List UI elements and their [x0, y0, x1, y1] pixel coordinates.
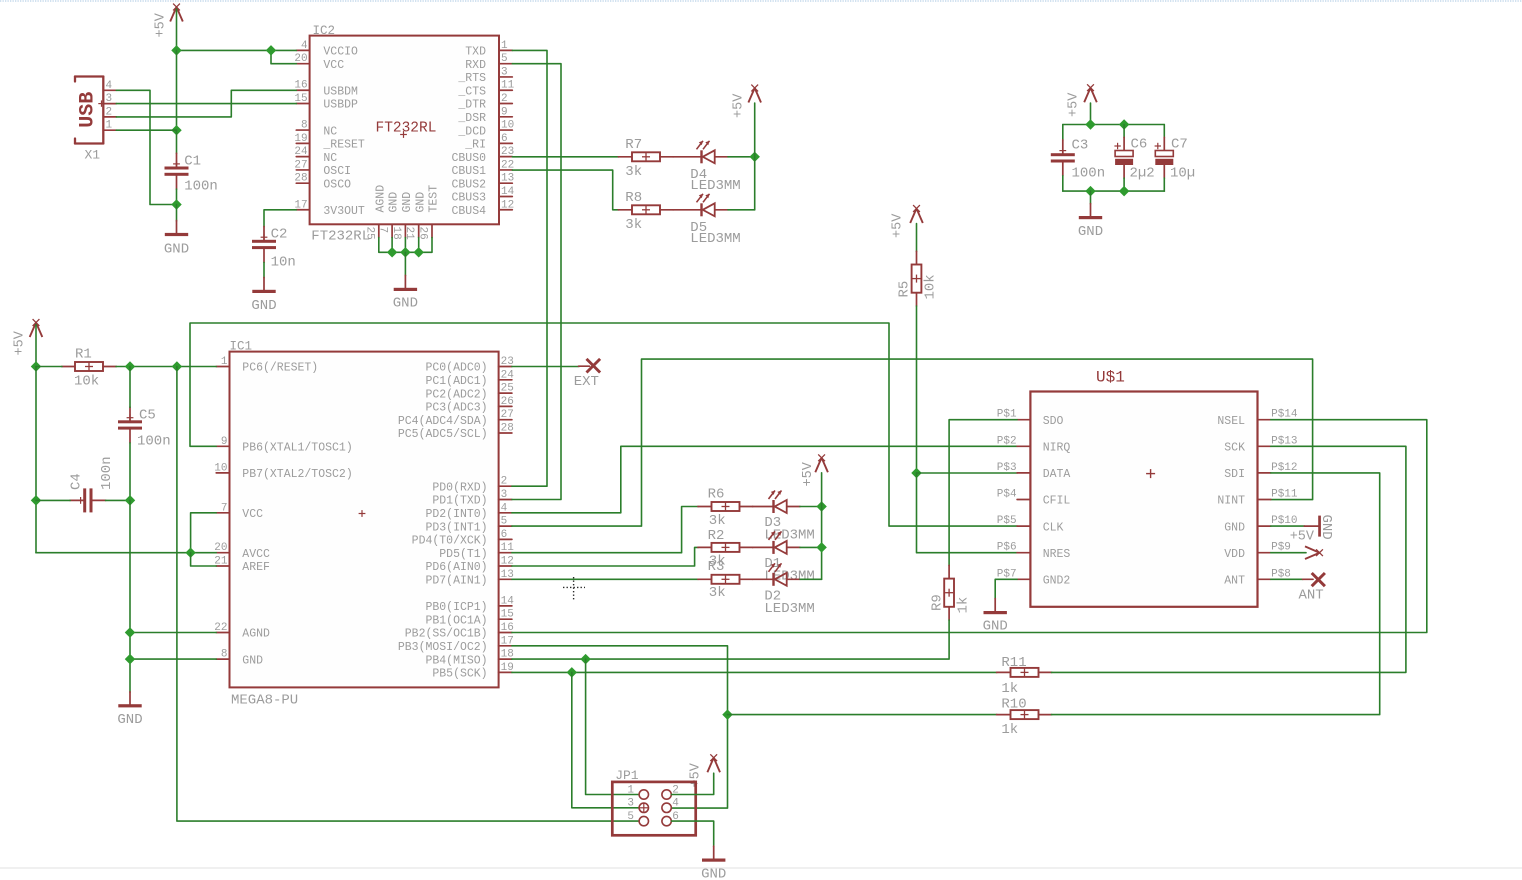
GND label left column	[117, 712, 142, 728]
IC1 pin 18 PB4(MISO) (right)	[425, 649, 513, 668]
C1 name label	[184, 154, 201, 170]
ground symbol under C2	[252, 277, 275, 293]
wire C1 bottom to ground node	[176, 189, 178, 204]
ground symbol under P$7	[984, 599, 1007, 615]
IC2 pin 19 _RESET (left)	[294, 133, 365, 152]
D4 value label LED3MM	[690, 178, 740, 194]
svg-text:OSCO: OSCO	[323, 178, 351, 191]
JP1 pin 5 (left) and pin 6 (right) row 3	[627, 811, 679, 826]
wire USB pin3 D+ to IC2 USBDP pin 15	[116, 103, 296, 105]
D3 name label	[764, 515, 781, 531]
R9 name label (rotated)	[930, 594, 946, 611]
svg-text:9: 9	[221, 436, 228, 448]
IC2 pin 9 _DSR (right)	[457, 106, 512, 125]
svg-text:R11: R11	[1001, 655, 1026, 671]
wire U$1 P$1 SDO to R9	[949, 420, 1017, 566]
C7 name label	[1171, 137, 1188, 153]
svg-text:100n: 100n	[99, 456, 115, 490]
svg-text:GND: GND	[393, 296, 418, 312]
capacitor C7 10u (polarized)	[1155, 137, 1174, 178]
+5V supply symbol A3 (R1 left)	[13, 319, 43, 355]
svg-text:P$11: P$11	[1271, 489, 1298, 501]
faint bottom artifact line	[0, 867, 1522, 869]
svg-text:IC2: IC2	[313, 24, 336, 38]
wire R5 net down to U$1 NRES P$6	[917, 473, 1018, 553]
svg-text:GND: GND	[1078, 224, 1103, 240]
svg-text:4: 4	[501, 502, 508, 514]
LED D4	[697, 141, 729, 164]
svg-text:C4: C4	[69, 473, 85, 490]
svg-text:27: 27	[501, 409, 514, 421]
svg-text:TEST: TEST	[428, 185, 441, 213]
IC1 pin 1 PC6(/RESET) (left)	[216, 356, 318, 375]
resistor R5 10k (vertical)	[912, 251, 922, 306]
junction VCCIO/VCC branch	[266, 45, 276, 55]
svg-text:4: 4	[301, 40, 308, 52]
svg-text:PD0(RXD): PD0(RXD)	[432, 481, 487, 494]
IC box IC1 MEGA8-PU	[230, 352, 499, 688]
C3 name label	[1072, 138, 1089, 154]
svg-text:_DTR: _DTR	[457, 99, 486, 112]
wire R11 to U$1 SCK P$13	[1052, 446, 1406, 672]
IC1 pin 11 PD5(T1) (right)	[439, 542, 514, 561]
svg-text:PD3(INT1): PD3(INT1)	[425, 521, 487, 534]
C3 value label	[1072, 166, 1106, 182]
R2 value label 3k	[709, 554, 726, 570]
resistor R7	[618, 152, 673, 161]
U$1 pin P$9 VDD (right)	[1224, 542, 1291, 561]
junction D3 anode rail	[816, 501, 826, 511]
svg-text:3: 3	[627, 798, 634, 810]
D3 value label LED3MM	[764, 528, 814, 544]
IC2 pin 17 3V3OUT (left)	[294, 199, 365, 218]
IC2 pin 28 OSCO (left)	[294, 173, 351, 192]
U$1 pin P$6 NRES (left)	[997, 542, 1071, 561]
svg-text:GND: GND	[242, 654, 263, 667]
GND label under capacitor bank	[1078, 224, 1103, 240]
wire branch to IC2 VCC pin 20	[271, 50, 296, 63]
USB connector X1 outline	[75, 77, 105, 144]
X1 pin 2	[103, 106, 116, 118]
svg-text:PD2(INT0): PD2(INT0)	[425, 508, 487, 521]
svg-text:CLK: CLK	[1043, 521, 1064, 534]
wire +5V A6 stem	[1090, 103, 1092, 125]
R5 name label (rotated)	[897, 281, 913, 298]
R1 name label	[75, 347, 92, 363]
U$1 pin P$1 SDO (left)	[997, 409, 1064, 428]
svg-text:ANT: ANT	[1224, 575, 1245, 588]
IC2 pin 12 CBUS4 (right)	[451, 199, 514, 218]
svg-text:USBDP: USBDP	[323, 99, 358, 112]
wire C3 top lead	[1062, 125, 1064, 141]
svg-text:10: 10	[501, 120, 514, 132]
wire +5V A1 stem to junction	[176, 9, 178, 50]
svg-text:TXD: TXD	[465, 46, 486, 59]
wire +5V column down left side	[35, 367, 37, 553]
wire R1 right to IC1 PC6/RESET pin 1	[116, 366, 216, 368]
GND label under P$7	[983, 619, 1008, 635]
connector JP1 box	[612, 782, 695, 835]
capacitor C5 100n	[118, 407, 142, 443]
wire IC2 3V3OUT pin17 to C2	[264, 210, 296, 227]
IC2 pin 26 TEST (bottom)	[417, 185, 441, 240]
wire SCK down to JP1 pin 3	[572, 672, 639, 807]
wire JP1 pin6 to GND	[672, 821, 714, 846]
svg-text:_RI: _RI	[464, 139, 486, 152]
IC1 pin 16 PB2(SS/OC1B) (right)	[405, 622, 514, 641]
svg-text:9: 9	[501, 106, 508, 118]
svg-text:_DCD: _DCD	[457, 125, 486, 138]
ANT net label	[1299, 588, 1324, 604]
wire analog ground column	[129, 500, 131, 692]
R10 name label	[1001, 697, 1026, 713]
wire +5V to IC2 VCCIO pin 4	[177, 49, 297, 51]
svg-text:PB2(SS/OC1B): PB2(SS/OC1B)	[405, 628, 488, 641]
svg-text:PD6(AIN0): PD6(AIN0)	[425, 561, 487, 574]
junction D1 anode rail	[816, 542, 826, 552]
svg-text:3: 3	[106, 93, 113, 105]
mouse crosshair cursor artifact	[563, 577, 585, 600]
junction MOSI / R10 branch	[722, 709, 732, 719]
svg-text:PB0(ICP1): PB0(ICP1)	[425, 601, 487, 614]
wire C6 bottom lead	[1123, 178, 1125, 191]
U$1 name label	[1096, 369, 1125, 387]
svg-text:3: 3	[501, 66, 508, 78]
svg-text:28: 28	[294, 173, 307, 185]
IC2 pin 2 _DTR (right)	[457, 93, 512, 112]
R8 name label	[625, 190, 642, 206]
svg-text:19: 19	[294, 133, 307, 145]
svg-text:GND: GND	[251, 298, 276, 314]
wire R2 to D1	[753, 546, 774, 548]
IC1 pin 5 PD3(INT1) (right)	[425, 516, 511, 535]
IC1 pin 10 PB7(XTAL2/TOSC2) (left)	[214, 462, 352, 481]
+5V supply symbol A8 (U$1 VDD, pointing right)	[1290, 530, 1323, 560]
wire +5V A4 rail down LED bank	[821, 473, 823, 580]
svg-text:VCC: VCC	[242, 508, 263, 521]
JP1 pin 3 (left) and pin 4 (right) row 2	[627, 798, 679, 813]
svg-text:PC4(ADC4/SDA): PC4(ADC4/SDA)	[398, 415, 488, 428]
svg-text:12: 12	[501, 199, 514, 211]
GND label under C2	[251, 298, 276, 314]
svg-text:NIRQ: NIRQ	[1043, 442, 1071, 455]
svg-text:1k: 1k	[1001, 681, 1018, 697]
svg-text:2: 2	[501, 93, 508, 105]
IC1 pin 17 PB3(MOSI/OC2) (right)	[398, 635, 514, 654]
svg-text:SDI: SDI	[1224, 468, 1245, 481]
svg-text:USBDM: USBDM	[323, 85, 358, 98]
wire C2 bottom to GND	[263, 262, 265, 277]
wire ground node down to GND symbol	[176, 205, 178, 222]
svg-text:100n: 100n	[137, 434, 171, 450]
svg-text:PD4(T0/XCK): PD4(T0/XCK)	[412, 535, 488, 548]
junction IC2 GND pin7	[387, 247, 397, 257]
C6 value label	[1130, 166, 1155, 182]
LED D5	[697, 194, 729, 217]
svg-text:5: 5	[627, 811, 634, 823]
wire IC1 PB4 MISO row	[512, 658, 586, 660]
IC2 pin 16 USBDM (left)	[294, 80, 358, 99]
svg-text:5: 5	[501, 516, 508, 528]
wire IC1 PB5 SCK row to R11	[512, 671, 997, 673]
svg-text:VDD: VDD	[1224, 548, 1245, 561]
svg-text:PD7(AIN1): PD7(AIN1)	[425, 575, 487, 588]
svg-text:C6: C6	[1131, 137, 1148, 153]
IC2 pin 25 AGND (bottom)	[363, 185, 387, 240]
svg-text:+5V: +5V	[1067, 92, 1082, 117]
IC1 pin 21 AREF (left)	[214, 556, 270, 575]
wire JP1 pin2 to +5V A7	[672, 773, 714, 794]
junction AVCC node	[185, 547, 195, 557]
wire +5V rail down to USB VBUS	[176, 50, 178, 130]
wire R7 to D4	[673, 156, 702, 158]
svg-text:_DSR: _DSR	[457, 112, 486, 125]
wire C7 bottom lead	[1163, 178, 1165, 191]
svg-text:GND: GND	[117, 712, 142, 728]
wire D1 anode to +5V rail	[800, 546, 822, 548]
wire PB6 XTAL1 to U$1 CLK P$5	[190, 323, 1017, 526]
wire IC2 bottom ground bus	[379, 238, 432, 253]
svg-text:2: 2	[106, 106, 113, 118]
IC1 pin 26 PC3(ADC3) (right)	[425, 396, 513, 415]
junction C4 left node	[31, 495, 41, 505]
IC box U$1 RF module	[1030, 392, 1257, 607]
svg-text:3k: 3k	[625, 164, 642, 180]
IC1 value label MEGA8-PU	[231, 693, 298, 709]
wire bottom rail of capacitor bank	[1063, 190, 1165, 192]
resistor R11 1k	[997, 668, 1052, 677]
junction AGND node	[125, 627, 135, 637]
LED D2	[769, 563, 801, 586]
svg-text:4: 4	[106, 80, 113, 92]
svg-text:6: 6	[501, 133, 508, 145]
svg-text:10n: 10n	[271, 255, 296, 271]
R7 value label 3k	[625, 164, 642, 180]
svg-text:14: 14	[501, 595, 515, 607]
svg-text:PD5(T1): PD5(T1)	[439, 548, 487, 561]
svg-text:28: 28	[501, 423, 514, 435]
svg-text:_RESET: _RESET	[322, 139, 365, 152]
USB text label (vertical, dark red)	[77, 92, 100, 128]
svg-text:6: 6	[501, 529, 508, 541]
svg-text:15: 15	[501, 609, 514, 621]
svg-text:_RTS: _RTS	[457, 72, 486, 85]
svg-text:CBUS3: CBUS3	[451, 192, 486, 205]
IC2 pin 4 VCCIO (left)	[296, 40, 358, 59]
svg-text:_CTS: _CTS	[457, 85, 486, 98]
svg-text:R7: R7	[625, 137, 642, 153]
C2 value label	[271, 255, 296, 271]
U$1 pin P$11 NINT (right)	[1217, 489, 1298, 508]
wire C7 top lead	[1163, 125, 1165, 138]
svg-text:10k: 10k	[74, 374, 99, 390]
R10 value label 1k	[1001, 722, 1018, 738]
svg-text:100n: 100n	[1072, 166, 1106, 182]
junction +5V/R1 node	[31, 361, 41, 371]
svg-text:R2: R2	[708, 528, 725, 544]
svg-text:1: 1	[627, 784, 634, 796]
IC2 pin 15 USBDP (left)	[294, 93, 358, 112]
svg-text:27: 27	[294, 159, 307, 171]
svg-text:1: 1	[501, 40, 508, 52]
svg-text:CBUS1: CBUS1	[451, 165, 486, 178]
IC1 pin 7 VCC (left)	[216, 502, 263, 521]
junction C1 bottom / USB GND node	[171, 199, 181, 209]
wire DATA node to U$1 P$3	[917, 472, 1018, 474]
svg-text:GND: GND	[414, 192, 427, 213]
IC2 pin 24 NC (left)	[294, 146, 337, 165]
svg-text:GND: GND	[388, 192, 401, 213]
capacitor C1 100n	[165, 153, 189, 189]
svg-text:LED3MM: LED3MM	[690, 231, 740, 247]
wire MISO down to JP1 pin 1	[586, 659, 639, 794]
EXT net label	[574, 374, 599, 390]
IC1 pin 3 PD1(TXD) (right)	[432, 489, 512, 508]
svg-text:24: 24	[294, 146, 308, 158]
wire D4 anode to +5V rail	[728, 156, 755, 158]
wire R8 to D5	[673, 209, 702, 211]
wire USB pin1 VBUS	[116, 129, 176, 131]
IC2 pin 21 GND (bottom)	[403, 192, 427, 240]
wire ground bus down to GND symbol	[404, 252, 406, 275]
IC2 pin 13 CBUS2 (right)	[451, 173, 514, 192]
X1 pin 1	[103, 120, 116, 132]
JP1 pin 1 (left) and pin 2 (right) row 1	[627, 784, 679, 799]
wire R9 bottom to MISO net	[586, 620, 950, 659]
R8 value label 3k	[625, 217, 642, 233]
svg-text:8: 8	[221, 649, 228, 661]
svg-text:AGND: AGND	[242, 628, 270, 641]
C4 value label 100n (rotated)	[99, 456, 115, 490]
svg-text:USB: USB	[77, 92, 100, 128]
svg-text:11: 11	[501, 80, 515, 92]
wire AREF branch	[191, 553, 217, 566]
svg-text:ANT: ANT	[1299, 588, 1324, 604]
D2 name label	[764, 588, 781, 604]
IC1 pin 4 PD2(INT0) (right)	[425, 502, 511, 521]
svg-text:1: 1	[106, 120, 113, 132]
junction DATA node at R5 net	[911, 468, 921, 478]
IC2 pin 20 VCC (left)	[294, 53, 344, 72]
svg-text:PC1(ADC1): PC1(ADC1)	[425, 375, 487, 388]
ground symbol under IC2	[394, 275, 417, 291]
IC1 pin 8 GND (left)	[216, 649, 263, 668]
junction IC2 GND pin18	[400, 247, 410, 257]
wire AVCC row	[36, 552, 216, 554]
svg-text:7: 7	[221, 502, 228, 514]
svg-text:NC: NC	[323, 125, 337, 138]
junction IC2 GND pin21	[413, 247, 423, 257]
resistor R1 10k	[62, 362, 117, 371]
svg-text:CBUS4: CBUS4	[451, 205, 486, 218]
svg-text:R9: R9	[930, 594, 946, 611]
svg-text:RXD: RXD	[465, 59, 486, 72]
svg-text:14: 14	[501, 186, 515, 198]
R3 name label	[708, 559, 725, 575]
R1 value label 10k	[74, 374, 99, 390]
svg-text:R3: R3	[708, 559, 725, 575]
IC1 pin 2 PD0(RXD) (right)	[432, 476, 512, 495]
U$1 pin P$3 DATA (left)	[997, 462, 1071, 481]
svg-text:AREF: AREF	[242, 561, 270, 574]
wire AGND row to IC1 pin 22	[130, 632, 216, 634]
svg-text:SDO: SDO	[1043, 415, 1064, 428]
svg-text:25: 25	[363, 227, 375, 240]
svg-text:LED3MM: LED3MM	[764, 601, 814, 617]
R7 name label	[625, 137, 642, 153]
U$1 pin P$10 GND (right)	[1224, 515, 1297, 534]
svg-text:PB4(MISO): PB4(MISO)	[425, 654, 487, 667]
svg-text:P$6: P$6	[997, 542, 1017, 554]
svg-text:C5: C5	[139, 408, 156, 424]
resistor R6	[698, 502, 753, 511]
svg-text:JP1: JP1	[615, 768, 639, 783]
svg-text:LED3MM: LED3MM	[690, 178, 740, 194]
svg-text:MEGA8-PU: MEGA8-PU	[231, 693, 298, 709]
wire IC1 PC0 pin23 to EXT	[512, 365, 590, 367]
+5V supply symbol A6 (C3 C6 C7 rail)	[1067, 84, 1097, 117]
IC2 pin 3 _RTS (right)	[457, 66, 512, 85]
wire U$1 P$10 to rotated GND	[1271, 525, 1305, 527]
R6 value label 3k	[709, 513, 726, 529]
wire top rail of capacitor bank	[1063, 124, 1165, 126]
wire U$1 P$8 ANT stub	[1271, 578, 1313, 580]
junction C5 top node	[125, 361, 135, 371]
svg-text:2: 2	[501, 476, 508, 488]
svg-text:10k: 10k	[923, 274, 939, 299]
svg-text:R8: R8	[625, 190, 642, 206]
IC1 pin 28 PC5(ADC5/SCL) (right)	[398, 423, 514, 442]
wire R5 down to DATA node	[916, 306, 918, 473]
IC1 pin 20 AVCC (left)	[214, 542, 270, 561]
wire USB pin4 GND to C1 bottom	[116, 90, 176, 204]
IC1 pin 14 PB0(ICP1) (right)	[425, 595, 514, 614]
C6 name label	[1131, 137, 1148, 153]
svg-text:1k: 1k	[1001, 722, 1018, 738]
IC1 pin 12 PD6(AIN0) (right)	[425, 556, 513, 575]
IC2 pin 23 CBUS0 (right)	[451, 146, 514, 165]
IC2 pin 1 TXD (right)	[465, 40, 512, 59]
LED D3	[769, 491, 801, 514]
D4 name label	[690, 167, 707, 183]
svg-text:PC5(ADC5/SCL): PC5(ADC5/SCL)	[398, 428, 488, 441]
ground symbol under JP1	[702, 846, 725, 862]
svg-text:25: 25	[501, 383, 514, 395]
svg-text:AVCC: AVCC	[242, 548, 270, 561]
IC1 pin 15 PB1(OC1A) (right)	[425, 609, 513, 628]
U$1 pin P$13 SCK (right)	[1224, 435, 1297, 454]
GND label rotated at P$10	[1318, 515, 1334, 540]
svg-text:PC0(ADC0): PC0(ADC0)	[425, 362, 487, 375]
svg-text:R5: R5	[897, 281, 913, 298]
IC1 pin 9 PB6(XTAL1/TOSC1) (left)	[216, 436, 353, 455]
svg-text:100n: 100n	[184, 179, 218, 195]
wire RESET net down to JP1 pin 5	[177, 367, 639, 822]
wire R6 to D3	[753, 506, 774, 508]
X1 name label	[85, 148, 101, 163]
IC2 value label FT232RL (below box)	[311, 229, 370, 245]
IC2 pin 8 NC (left)	[296, 120, 337, 139]
junction MISO / JP1 pin1 branch	[580, 654, 590, 664]
IC1 pin 19 PB5(SCK) (right)	[432, 662, 513, 681]
IC1 pin 22 AGND (left)	[214, 622, 270, 641]
svg-text:PB3(MOSI/OC2): PB3(MOSI/OC2)	[398, 641, 488, 654]
wire R1 left to +5V node	[36, 366, 62, 368]
svg-text:NSEL: NSEL	[1217, 415, 1245, 428]
no-connect cross EXT	[587, 359, 601, 373]
D5 value label LED3MM	[690, 231, 740, 247]
wire +5V A2 rail down to D5	[754, 103, 756, 210]
